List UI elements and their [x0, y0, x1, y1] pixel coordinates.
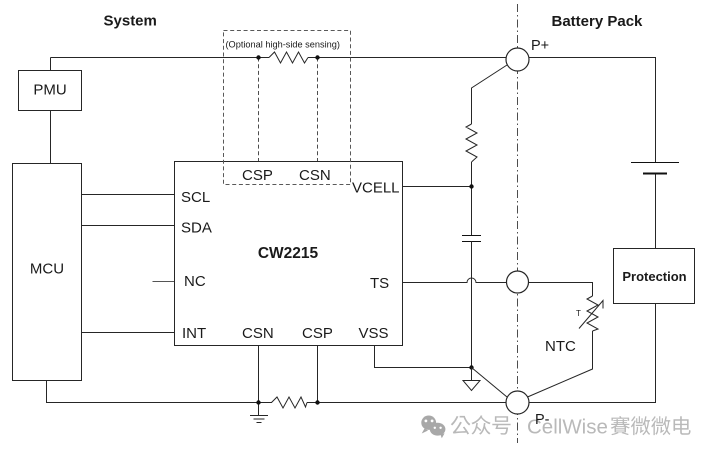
boundary dash-dot line between System and Battery Pack: [517, 4, 519, 443]
svg-text:NC: NC: [184, 273, 206, 290]
junction dot CSN / ground bus: [256, 400, 260, 404]
node P+: [506, 48, 529, 71]
svg-text:CSN: CSN: [242, 325, 274, 342]
wire: P+ right to battery: [529, 58, 656, 163]
wire: MCU bottom drop to ground bus: [47, 381, 273, 403]
svg-text:CW2215: CW2215: [258, 245, 319, 262]
svg-text:MCU: MCU: [30, 261, 64, 278]
svg-text:(Optional high-side sensing): (Optional high-side sensing): [226, 40, 340, 50]
svg-text:P+: P+: [531, 38, 549, 54]
watermark hanzi 微: [651, 416, 670, 435]
svg-text:SCL: SCL: [181, 189, 210, 206]
wire: diagonal from P+ node to R1 top: [472, 65, 508, 124]
svg-text:SDA: SDA: [181, 220, 212, 237]
thermistor NTC: [587, 296, 598, 331]
thermistor strike line: [579, 301, 603, 329]
wire: PMU top to top bus: [50, 58, 52, 71]
svg-text:P-: P-: [535, 412, 550, 428]
wire R1 to capacitor: [471, 162, 473, 235]
svg-text:Protection: Protection: [622, 269, 686, 284]
junction dot VSS node: [469, 365, 473, 369]
wire: ground bus resistor to P- node: [307, 402, 507, 404]
ground arrow marker below VSS junction: [471, 368, 473, 381]
svg-text:System: System: [104, 13, 157, 30]
watermark hanzi 公: [451, 416, 471, 435]
dashed wire: sense resistor left terminal to CSP top pin: [258, 58, 260, 162]
watermark hanzi 賽: [611, 416, 630, 435]
wire: CSP bottom pin drop: [317, 346, 319, 403]
junction dot sense resistor right: [315, 55, 319, 59]
svg-text:CSP: CSP: [242, 167, 273, 184]
svg-text:PMU: PMU: [33, 82, 66, 99]
wire: top bus sense resistor to P+ node: [308, 57, 507, 59]
wire: top bus PMU corner to sense resistor: [51, 57, 270, 59]
wire capacitor to VSS junction: [471, 242, 473, 368]
svg-text:VCELL: VCELL: [352, 180, 400, 197]
wire: VSS junction diagonal to P- node: [472, 368, 508, 398]
wire: PMU bottom to MCU top: [50, 111, 52, 164]
wire battery to Protection: [655, 175, 657, 249]
CW2215 IC box U1: [175, 162, 403, 346]
resistor R_sense low-side: [272, 397, 308, 408]
ground symbol at CSN: [250, 416, 268, 423]
MCU box: [13, 164, 82, 381]
wire VSS down and right to ground junction: [375, 346, 472, 368]
Protection box: [614, 249, 695, 304]
wire SDA: MCU to CW2215: [82, 225, 175, 227]
watermark wechat icon: [421, 416, 445, 439]
node TS: [507, 271, 529, 293]
dashed box: optional high-side sensing region: [224, 31, 351, 185]
wire SCL: MCU to CW2215: [82, 194, 175, 196]
svg-text:NTC: NTC: [545, 338, 576, 355]
svg-text:VSS: VSS: [359, 325, 389, 342]
capacitor C1: [462, 236, 481, 242]
watermark hanzi 电: [673, 416, 690, 434]
watermark hanzi 众: [471, 415, 490, 434]
svg-text:CSP: CSP: [302, 325, 333, 342]
resistor R_sense optional high-side: [269, 52, 308, 63]
wire NTC bottom diagonal to P- node: [528, 331, 593, 397]
wire INT: MCU to CW2215: [82, 332, 175, 334]
PMU box: [19, 71, 82, 111]
wire VCELL to divider junction: [403, 186, 472, 188]
junction dot sense resistor left: [256, 55, 260, 59]
svg-text:TS: TS: [370, 275, 389, 292]
junction dot VCELL node: [469, 184, 473, 188]
svg-text:INT: INT: [182, 325, 206, 342]
svg-text:Battery Pack: Battery Pack: [552, 13, 644, 30]
resistor R1 VCELL series: [466, 124, 477, 162]
svg-text:CSN: CSN: [299, 167, 331, 184]
wire Protection bottom to P- node: [529, 304, 656, 403]
wire: CSN bottom pin drop: [258, 346, 260, 416]
dashed wire: sense resistor right terminal to CSN top pin: [317, 58, 319, 162]
watermark hanzi 微: [631, 416, 650, 435]
node P-: [506, 391, 529, 414]
wire: NC stub: [153, 281, 175, 283]
wire: TS node to NTC top: [529, 283, 593, 297]
junction dot CSP / ground bus: [315, 400, 319, 404]
wire TS to node circle with hop: [403, 278, 507, 283]
svg-text:T: T: [576, 309, 581, 318]
battery cell BT1: [631, 163, 679, 174]
watermark hanzi 号: [492, 416, 510, 434]
